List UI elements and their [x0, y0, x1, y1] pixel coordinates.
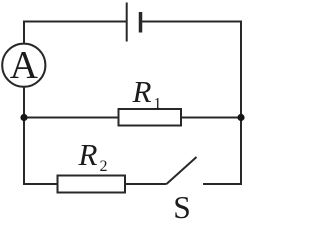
- svg-text:S: S: [173, 190, 191, 222]
- svg-text:A: A: [10, 44, 38, 87]
- svg-text:2: 2: [100, 158, 108, 175]
- svg-text:R: R: [132, 74, 152, 109]
- svg-text:R: R: [78, 137, 98, 172]
- svg-text:1: 1: [154, 95, 162, 112]
